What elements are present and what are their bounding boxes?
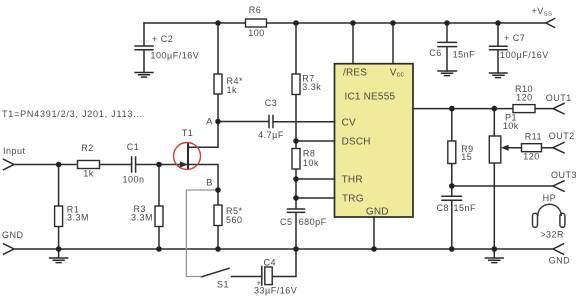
- svg-text:4.7µF: 4.7µF: [258, 130, 284, 140]
- svg-text:1k: 1k: [227, 85, 238, 95]
- svg-text:HP: HP: [543, 193, 557, 203]
- svg-text:OUT2: OUT2: [549, 131, 575, 141]
- svg-text:Input: Input: [3, 146, 26, 156]
- svg-text:10k: 10k: [503, 121, 519, 131]
- svg-text:C1: C1: [127, 142, 140, 152]
- svg-text:B: B: [206, 178, 213, 189]
- svg-text:DSCH: DSCH: [342, 137, 371, 148]
- svg-text:>32R: >32R: [540, 230, 564, 240]
- svg-text:3.3k: 3.3k: [302, 82, 321, 92]
- svg-text:R11: R11: [525, 132, 542, 142]
- svg-text:CV: CV: [342, 118, 356, 129]
- svg-text:T1: T1: [182, 128, 194, 138]
- svg-text:680pF: 680pF: [299, 217, 327, 227]
- svg-text:+ C2: + C2: [152, 34, 173, 44]
- svg-text:GND: GND: [549, 256, 571, 266]
- svg-text:3.3M: 3.3M: [67, 212, 89, 222]
- svg-text:T1=PN4391/2/3, J201, J113...: T1=PN4391/2/3, J201, J113...: [2, 109, 143, 119]
- svg-text:100n: 100n: [122, 174, 144, 184]
- svg-text:15nF: 15nF: [454, 203, 477, 213]
- svg-text:15nF: 15nF: [453, 50, 476, 60]
- svg-text:100: 100: [248, 28, 265, 38]
- svg-text:C5: C5: [280, 217, 293, 227]
- svg-text:GND: GND: [2, 230, 24, 240]
- svg-text:C8: C8: [437, 203, 450, 213]
- svg-text:R6: R6: [249, 5, 262, 15]
- svg-text:OUT1: OUT1: [546, 93, 572, 103]
- svg-text:GND: GND: [366, 207, 389, 218]
- svg-text:100µF/16V: 100µF/16V: [151, 51, 200, 61]
- svg-text:100µF/16V: 100µF/16V: [500, 50, 549, 60]
- svg-text:1k: 1k: [83, 169, 94, 179]
- svg-text:33µF/16V: 33µF/16V: [254, 286, 297, 296]
- svg-text:15: 15: [461, 152, 472, 162]
- svg-text:560: 560: [226, 215, 243, 225]
- svg-text:IC1 NE555: IC1 NE555: [345, 92, 396, 103]
- svg-text:C4: C4: [264, 258, 277, 268]
- svg-text:C3: C3: [265, 98, 278, 108]
- svg-text:C6: C6: [429, 48, 442, 58]
- svg-text:/RES: /RES: [343, 68, 367, 79]
- svg-text:R2: R2: [81, 143, 94, 153]
- svg-text:A: A: [206, 117, 213, 128]
- svg-text:120: 120: [516, 93, 533, 103]
- svg-text:OUT3: OUT3: [551, 170, 577, 180]
- svg-text:TRG: TRG: [342, 194, 364, 205]
- svg-text:S1: S1: [217, 279, 229, 289]
- svg-text:10k: 10k: [303, 158, 319, 168]
- svg-text:R8: R8: [303, 149, 316, 159]
- svg-text:3.3M: 3.3M: [131, 212, 153, 222]
- svg-text:+ C7: + C7: [504, 33, 525, 43]
- svg-text:120: 120: [523, 151, 540, 161]
- svg-text:THR: THR: [342, 175, 363, 186]
